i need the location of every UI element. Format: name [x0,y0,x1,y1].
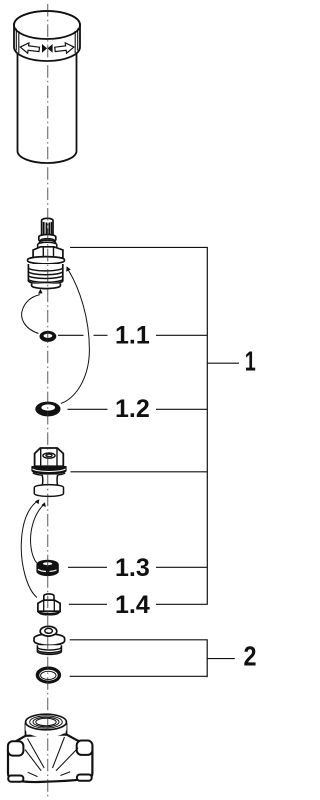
cap (handle top) [14,11,80,61]
screw head top ring [43,453,55,458]
valve body left port corner bump [8,741,24,755]
svg-text:1: 1 [245,346,256,377]
bracket 2 vertical [206,639,208,677]
leader 1.2 right segment [156,408,207,410]
svg-text:1.4: 1.4 [115,591,150,619]
o-ring 1.1 [40,331,57,342]
screw neck [42,475,58,487]
leader 1.4 right segment [156,603,207,605]
cap grip hatch right [75,29,78,54]
left arrow (on cap) [20,42,40,55]
bracket 2 tick [207,658,235,660]
o-ring 1.3 (dark washer) [37,560,58,575]
valve body left port bottom tab [8,776,23,782]
cartridge collar [39,235,56,243]
svg-text:1.3: 1.3 [115,554,150,582]
svg-text:2: 2 [244,641,257,672]
screw base rings [34,485,63,494]
leader screw to bracket 1 [71,471,208,473]
arrowhead 1.2 [66,266,71,271]
bracket 2 top line (leader from bushing) [70,639,208,641]
nut 1.4 top cylinder [44,594,54,602]
curve from o-ring 1.2 to cartridge [61,271,89,404]
valve body face lines [25,737,78,777]
cartridge hex [33,247,63,258]
valve body boss [26,723,67,737]
part 2 gland bushing body bulge [34,634,65,645]
right arrow (on cap) [54,42,74,55]
cartridge flange [28,257,65,264]
cartridge threaded body [28,264,62,284]
valve boss thread rings [30,716,63,728]
svg-text:1.2: 1.2 [115,395,150,423]
svg-text:1.1: 1.1 [115,322,150,350]
arrowhead 1.4 curve [35,499,39,504]
cartridge cone steps [38,239,57,249]
screw dark flange [32,467,66,474]
nut 1.4 hex [38,600,60,611]
cartridge stem (splined spindle) [42,218,53,235]
leader 1.3 left segment [68,566,107,568]
leader 1.1 right segment [156,334,207,336]
leader line cartridge to bracket 1 [70,246,207,248]
curve from o-ring 1.3 to screw [31,505,44,563]
cap grip hatch left [16,29,19,54]
part 2 gland bushing top rings [40,626,57,636]
bracket 1 vertical [206,247,208,605]
valve body right port corner bump [77,741,93,755]
leader 1.2 left segment [68,408,108,410]
arrowhead 1.1 [38,289,43,294]
curve from o-ring 1.1 to cartridge [22,295,40,334]
o-ring 1.2 [35,402,60,417]
valve body right port bottom tab [77,775,92,781]
bracket 1 tick [207,362,239,364]
arrowhead 1.3 curve [41,502,46,507]
cylinder body [18,50,77,163]
valve body outline [8,735,92,783]
centerline (dash-dot) [47,4,49,797]
bracket 2 bottom line (leader from o-ring) [70,675,208,677]
part 2 gland bushing skirt [37,645,61,654]
leader 1.1 left segment [58,334,84,336]
curve from nut 1.4 to screw [21,502,37,598]
bowtie symbol (on cap) [42,44,47,53]
screw gland hex head [35,448,64,466]
o-ring 2 [36,667,61,684]
leader 1.3 right segment [156,566,207,568]
cartridge bottom washer [32,284,61,289]
leader 1.4 left segment [69,603,107,605]
